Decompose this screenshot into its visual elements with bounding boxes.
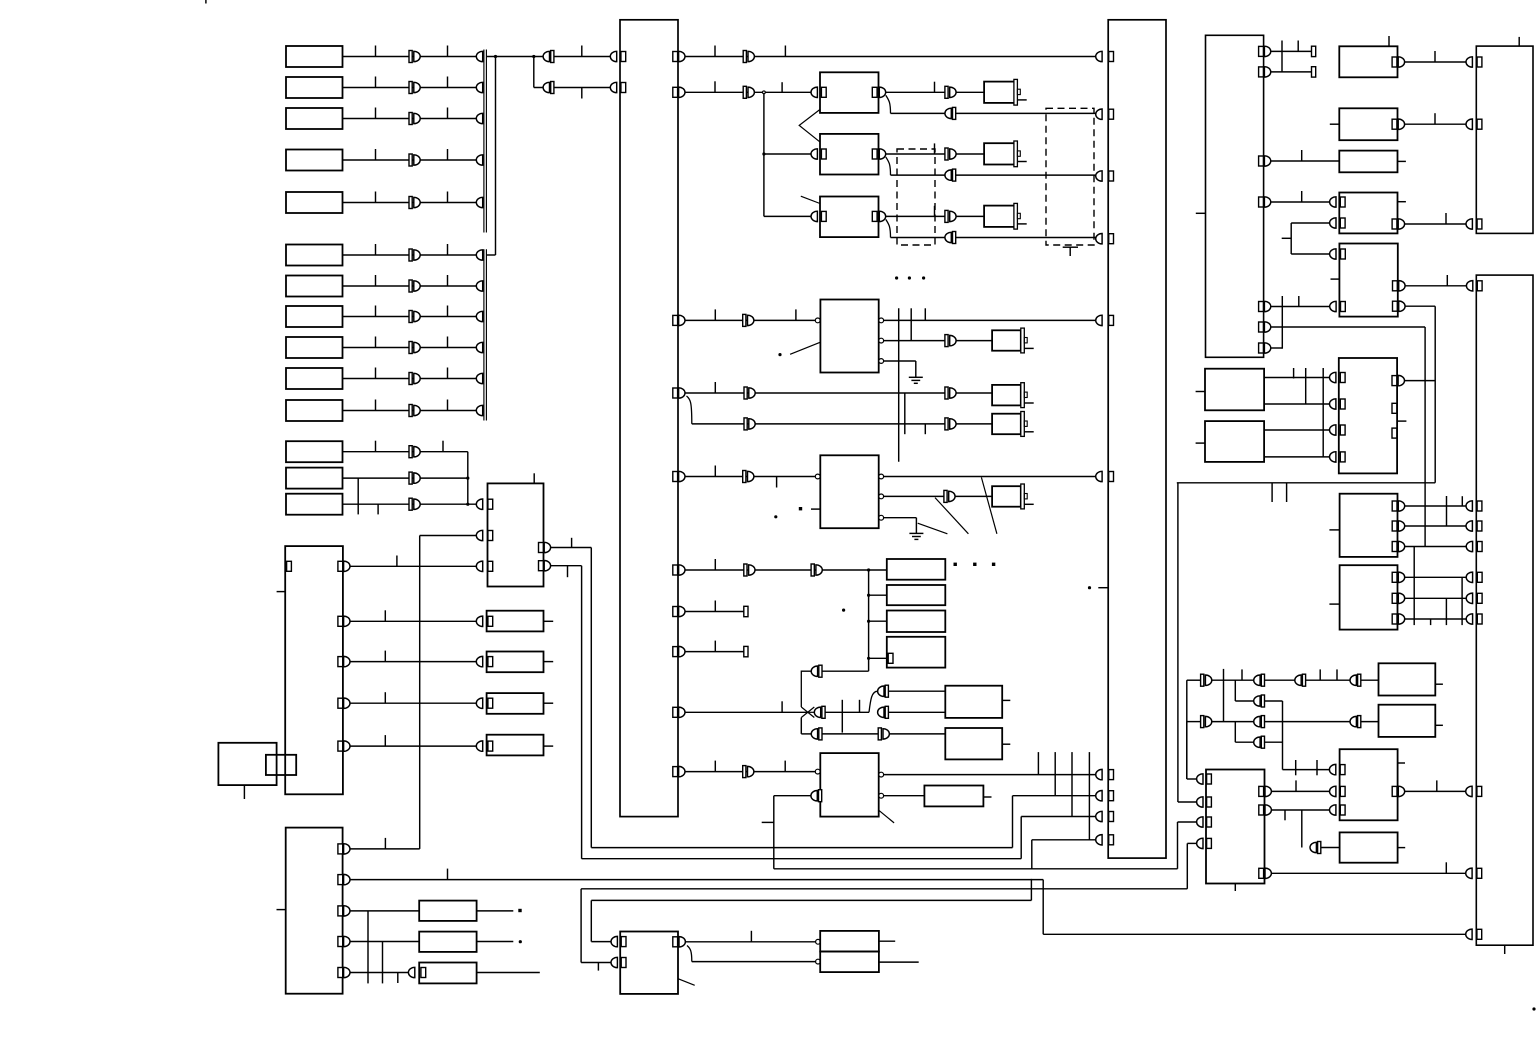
wire V1 row3 — [1405, 546, 1467, 548]
tick U13 out1 — [1295, 780, 1297, 791]
pin U6 row2 — [1109, 109, 1114, 119]
arc into U15 row6 — [1466, 593, 1472, 603]
tick U1 row2 a — [714, 81, 716, 92]
block U5 — [286, 828, 343, 994]
arc into U6 row9 — [1096, 811, 1102, 821]
arc into U2 row3 — [476, 561, 482, 571]
wire chain tap1 — [869, 594, 887, 596]
block E1 — [419, 901, 476, 921]
wire U12 row2 — [1271, 71, 1312, 73]
tick on A5 wire — [375, 192, 377, 203]
wire U5 row3 — [350, 910, 419, 912]
wire S to MRB row1 — [1264, 377, 1329, 379]
arc U3 out3 — [344, 656, 350, 666]
pin U15 row1 — [1477, 281, 1482, 291]
block M5 — [992, 385, 1021, 406]
wire y822 into R-ctrl — [1178, 821, 1197, 823]
arc into U1 row1 — [610, 51, 616, 61]
arc U12 out1 — [1264, 46, 1270, 56]
crossover X1 b — [801, 707, 814, 718]
arc V1 out2 — [1398, 521, 1404, 531]
wire S to MRB row3 — [1264, 429, 1329, 431]
pin G2 in — [821, 149, 826, 159]
bus entry arc A11 — [476, 405, 482, 415]
tick on A6 wire — [375, 244, 377, 255]
arc U12 out4 — [1264, 197, 1270, 207]
connector M1 stub — [1017, 99, 1026, 101]
wire U12 row7 — [1271, 347, 1283, 349]
bubble U8 out2 — [879, 494, 884, 499]
wire dashed row 3 a — [891, 237, 945, 239]
tick on A2 wire 2 — [447, 77, 449, 88]
block L1 — [820, 931, 879, 952]
arc U2 out1 — [544, 542, 550, 552]
block N1 — [887, 559, 946, 580]
wire long vertical left — [419, 536, 421, 849]
block D2 — [487, 652, 544, 673]
block R4box — [1339, 193, 1397, 234]
wire U1 row9 — [685, 711, 808, 713]
arc into U6 row4 — [1096, 234, 1102, 244]
arc into D1 — [476, 616, 482, 626]
wire G3 out — [886, 215, 945, 217]
tick Y1 out — [1436, 780, 1438, 791]
arc U1 out7 — [679, 606, 685, 616]
wire H6 to M6 — [956, 423, 992, 425]
pin U16 out1 — [1392, 376, 1397, 386]
block U7 — [820, 300, 878, 373]
wire U12 rows567 link — [1281, 296, 1283, 349]
wire U3 row1 — [350, 565, 476, 567]
connector M7 bar — [1021, 484, 1025, 509]
block Y1 — [1340, 749, 1398, 820]
block E2 — [419, 932, 476, 952]
pin U6 row6 — [1109, 472, 1114, 482]
block G1 — [820, 72, 879, 113]
pin V1 out2 — [1392, 521, 1397, 531]
wire W drop 1223 — [1223, 669, 1225, 722]
block A6 — [286, 245, 343, 266]
node chain J5 — [867, 568, 870, 571]
bubble L1 in — [816, 939, 821, 944]
buffer P1 — [811, 665, 822, 677]
wire block A5 output — [343, 202, 477, 204]
buffer B1 — [543, 51, 554, 63]
leader U9 — [878, 810, 894, 823]
block Y2 — [1340, 832, 1398, 862]
wire y482 long — [1177, 482, 1435, 484]
bus B2 line 2 — [485, 249, 487, 420]
wire C1 output — [343, 451, 468, 453]
wire U1 row8 — [685, 651, 744, 653]
wire y802 into R-ctrl — [1178, 801, 1197, 803]
arc R2box out — [1398, 119, 1404, 129]
pin U14 row1 — [1477, 57, 1482, 67]
wire C2 output — [343, 477, 468, 479]
wire into Y2 — [1321, 847, 1340, 849]
wire block A1 output — [343, 56, 477, 58]
wire y879 corner down — [1042, 880, 1044, 935]
arc U1 out5 — [679, 471, 685, 481]
tick below U13 — [1234, 884, 1236, 892]
buffer F1 — [743, 51, 754, 63]
wire bus to U1 row1 — [486, 56, 610, 58]
buffer Y2 in — [1310, 842, 1321, 854]
arc into U13 row3 — [1197, 817, 1203, 827]
arc into U15 row10 — [1466, 929, 1472, 939]
arc into D3 — [476, 698, 482, 708]
wire U12 rows12 link — [1281, 41, 1283, 72]
wire stair2 top — [1021, 816, 1096, 818]
wire X2 stub — [1435, 724, 1443, 726]
pin U16 row4 — [1340, 452, 1345, 462]
pin U5 out4 — [338, 937, 343, 947]
wire Y2 stub — [1398, 847, 1406, 849]
arc U1 out1 — [679, 51, 685, 61]
wire block A2 output — [343, 87, 477, 89]
arc into U6 row10 — [1096, 835, 1102, 845]
wire U3 row5 — [350, 745, 476, 747]
arc U3 out2 — [344, 616, 350, 626]
ground GND2 — [909, 533, 923, 539]
pin U2 row1 — [488, 499, 493, 509]
arc U1 out6 — [679, 565, 685, 575]
wire L1 stub — [879, 940, 895, 942]
arc into U15 row9 — [1466, 868, 1472, 878]
block E3 — [419, 963, 476, 984]
wire R5box out1 — [1405, 285, 1466, 287]
tick W row1 c — [1336, 669, 1338, 680]
block M3 — [984, 206, 1015, 227]
arc U1 out4 — [679, 388, 685, 398]
pin U6 row4 — [1109, 234, 1114, 244]
dot bottom right — [1532, 1007, 1535, 1010]
pin U15 row4 — [1477, 542, 1482, 552]
buffer P2 — [814, 706, 825, 718]
pin U1 out7 — [673, 607, 678, 617]
buffer F7 — [744, 564, 755, 576]
block U12 — [1206, 35, 1264, 357]
wire dashed row 2 b — [956, 174, 1096, 176]
bus entry arc A5 — [476, 197, 482, 207]
wire G2 input — [764, 153, 811, 155]
block M2 — [984, 143, 1015, 164]
buffer P5 — [811, 728, 822, 740]
arc G1 out — [879, 87, 885, 97]
tick U2 out1 — [571, 538, 573, 548]
pin U1 out9 — [673, 707, 678, 717]
pin R5box in — [1341, 302, 1346, 312]
arc into G1 — [811, 87, 817, 97]
tick U13 out3 — [1445, 862, 1447, 873]
wire U7 out3 — [884, 360, 916, 362]
wire J1 down to group2 — [495, 57, 497, 256]
pin U15 row9 — [1477, 868, 1482, 878]
buffer F8 — [811, 564, 822, 576]
pin U6 row10 — [1109, 835, 1114, 845]
comb line 1 — [898, 308, 900, 462]
stub U8 left — [811, 508, 820, 510]
arc U12 out6 — [1264, 322, 1270, 332]
wire U1 row3 — [685, 319, 815, 321]
wire U7 out2 — [884, 340, 945, 342]
wire y900 — [591, 899, 1031, 901]
buffer A6a — [409, 249, 420, 261]
bubble U7 in — [815, 318, 820, 323]
tick U1 row2 b — [781, 82, 783, 92]
pin U13 row2 — [1207, 797, 1212, 807]
node J4 — [466, 503, 469, 506]
wire y843 into R-ctrl — [1187, 842, 1196, 844]
block U6 — [1108, 20, 1166, 858]
stub left of drop — [762, 821, 774, 823]
buffer W6 — [1201, 716, 1212, 728]
pin V2 out1 — [1392, 572, 1397, 582]
stub R5box left — [1331, 278, 1340, 280]
wire U12 row3 — [1271, 160, 1340, 162]
wire U4 stub down — [243, 785, 245, 799]
wire W row3 a — [1212, 721, 1254, 723]
arc U2 out2 — [544, 561, 550, 571]
bus B2 line 1 — [483, 249, 485, 420]
stub S1 left — [1196, 391, 1205, 393]
wire X1 stub — [1435, 683, 1443, 685]
pin R5box in0 — [1341, 249, 1346, 259]
arc R5box out2 — [1399, 301, 1405, 311]
bubble U9 out2 — [879, 793, 884, 798]
pin G1 out — [872, 87, 877, 97]
pin U12 out7 — [1259, 343, 1264, 353]
buffer A2a — [409, 82, 420, 94]
tick on A2 wire — [375, 77, 377, 88]
wire U3 row2 — [350, 620, 476, 622]
pin U15 row8 — [1477, 786, 1482, 796]
wire dashed row 1 b — [956, 112, 1096, 114]
wire U13 out2 branch — [1301, 810, 1303, 848]
wire W row1 c — [1306, 679, 1350, 681]
block A7 — [286, 276, 343, 297]
tick row 424 — [924, 424, 926, 434]
tick U3 row5 — [384, 735, 386, 746]
arc V1 out1 — [1398, 501, 1404, 511]
tick U1 row5 b — [776, 477, 778, 488]
terminator below DB2 — [1063, 247, 1078, 256]
arc into U15 row5 — [1466, 572, 1472, 582]
block V2 — [1340, 565, 1398, 629]
wire mesh vert2 — [1461, 577, 1463, 625]
wire y888 — [581, 888, 1187, 890]
wire group2 row1 stub — [486, 254, 495, 256]
pin U1 out6 — [673, 565, 678, 575]
tick W row1 — [1241, 669, 1243, 680]
tick U1 row1 b — [784, 46, 786, 57]
pin G1 in — [821, 87, 826, 97]
tick U1 row6 — [714, 559, 716, 570]
pin U1 out10 — [673, 767, 678, 777]
pin V1 out3 — [1392, 542, 1397, 552]
buffer W2 — [1254, 674, 1265, 686]
arc into U6 row8 — [1096, 791, 1102, 801]
wire S to MRB row2 — [1264, 403, 1329, 405]
tick on A5 wire 2 — [447, 192, 449, 203]
block U3 — [285, 546, 343, 794]
connector M2 tab — [1017, 151, 1020, 156]
wire U13 out2 — [1271, 809, 1329, 811]
wire E2 out — [477, 941, 514, 943]
block D3 — [487, 693, 544, 714]
wire P5 out — [822, 733, 878, 735]
wire block A8 output — [343, 316, 477, 318]
pin U3 left — [287, 561, 292, 571]
pin U2 out2 — [539, 561, 544, 571]
arc into U6 row3 — [1096, 171, 1102, 181]
wire R1box out — [1405, 61, 1466, 63]
tick U5 left edge — [277, 909, 286, 911]
leader U7 — [790, 342, 820, 354]
arc U5 out1 — [344, 844, 350, 854]
wire U1 row4 — [685, 392, 945, 394]
pin D3 — [488, 698, 493, 708]
arc U3 out5 — [344, 741, 350, 751]
wire stair2 up — [1020, 817, 1022, 859]
wire E1 out — [477, 910, 514, 912]
pin U11 in1 — [621, 937, 626, 947]
block U9 — [820, 753, 878, 817]
tick on A8 wire 2 — [447, 306, 449, 317]
bubble L2 in — [816, 959, 821, 964]
tick R4box wire — [1445, 213, 1447, 224]
wire P2 out — [825, 711, 869, 713]
buffer H6 — [945, 418, 956, 430]
arc into U1 row2 — [610, 82, 616, 92]
arc R1box out — [1398, 57, 1404, 67]
tick above U2 — [533, 473, 535, 483]
wire block A9 output — [343, 347, 477, 349]
arc U5 out5 — [344, 967, 350, 977]
wire U1 row6 a — [685, 569, 887, 571]
block A2 — [286, 77, 343, 98]
arc into U2 row1 — [476, 499, 482, 509]
buffer W7 — [1254, 716, 1265, 728]
tick G1 out — [934, 82, 936, 93]
leader line G3 — [801, 196, 820, 203]
wire W vert left — [1186, 680, 1188, 779]
wire R4box in2 vert — [1290, 223, 1292, 254]
tick U1 row4 — [714, 382, 716, 393]
wire U13 out1 — [1271, 790, 1329, 792]
block A3 — [286, 108, 343, 129]
wire P3 out — [889, 690, 946, 692]
block A10 — [286, 368, 343, 389]
block L2 — [820, 952, 879, 973]
arc U1 out8 — [679, 646, 685, 656]
arc U12 out5 — [1264, 301, 1270, 311]
arc into Y1 row2 — [1330, 786, 1336, 796]
wire D1 stub — [544, 620, 554, 622]
pin R5box out2 — [1393, 301, 1398, 311]
wire U16 stub — [1397, 420, 1406, 422]
wire split up curve — [869, 691, 878, 712]
tick G3 out — [934, 206, 936, 217]
buffer F3 — [743, 314, 754, 326]
wire P1 corner — [801, 671, 811, 707]
mark top left — [205, 0, 207, 4]
wire U5 row5 — [350, 972, 408, 974]
bus entry arc A10 — [476, 373, 482, 383]
connector M6 bar — [1021, 412, 1025, 437]
pin R1box out — [1392, 57, 1397, 67]
block M6 — [992, 414, 1021, 435]
arc into G2 — [811, 149, 817, 159]
block R1box — [1339, 46, 1397, 77]
wire y888 up — [1186, 843, 1188, 888]
square dot U8 — [799, 507, 802, 510]
dot U8 — [774, 515, 777, 518]
tick on A1 wire — [375, 46, 377, 57]
pin U12 out2 — [1259, 67, 1264, 77]
arc into U13 row2 — [1197, 797, 1203, 807]
tick U1 row8 — [714, 641, 716, 652]
arc into U6 row1 — [1096, 51, 1102, 61]
pin V1 out1 — [1392, 501, 1397, 511]
pin U15 row5 — [1477, 572, 1482, 582]
pin U6 row8 — [1109, 791, 1114, 801]
tick C1 a — [375, 441, 377, 452]
wire G3 branch curve — [886, 219, 891, 237]
pin U16 row3 — [1340, 425, 1345, 435]
wire U9 in2 lead — [774, 795, 811, 797]
pin U5 out2 — [338, 875, 343, 885]
tick U12 row5 — [1298, 296, 1300, 307]
wire mesh vert3 — [1445, 598, 1447, 625]
tick row1 — [581, 46, 583, 57]
wire R4box out — [1405, 223, 1466, 225]
arc G2 out — [879, 149, 885, 159]
wire U9 out2 a — [884, 795, 925, 797]
wire H7 to M7 — [955, 495, 992, 497]
wire S rows link c — [1322, 368, 1324, 458]
pin U13 out2 — [1259, 805, 1264, 815]
wire block A4 output — [343, 159, 477, 161]
wire U8 out2 — [884, 495, 944, 497]
connector M5 bar — [1021, 383, 1025, 408]
buffer H2 — [945, 148, 956, 160]
pin U15 row7 — [1477, 614, 1482, 624]
pin U5 out5 — [338, 968, 343, 978]
pin G3 out — [872, 211, 877, 221]
stub S2 left — [1196, 442, 1205, 444]
pin U6 row5 — [1109, 315, 1114, 325]
tick U3 row4 — [384, 692, 386, 703]
arc U3 out1 — [344, 561, 350, 571]
pin U3 out5 — [338, 741, 343, 751]
pin U5 out1 — [338, 844, 343, 854]
wire block A11 output — [343, 410, 477, 412]
tick on A1 wire 2 — [447, 46, 449, 57]
pin D1 — [488, 616, 493, 626]
connector M3 bar — [1014, 203, 1018, 229]
pin U12 out5 — [1259, 302, 1264, 312]
tick on A6 wire 2 — [447, 244, 449, 255]
wire P4 out — [889, 711, 946, 713]
ground GND1 — [909, 377, 923, 383]
terminator T4 — [1312, 67, 1316, 77]
arc R5box out1 — [1399, 281, 1405, 291]
pin U13 out3 — [1259, 868, 1264, 878]
tick on A4 wire 2 — [447, 149, 449, 160]
buffer F9 — [743, 766, 754, 778]
bus entry arc A4 — [476, 155, 482, 165]
